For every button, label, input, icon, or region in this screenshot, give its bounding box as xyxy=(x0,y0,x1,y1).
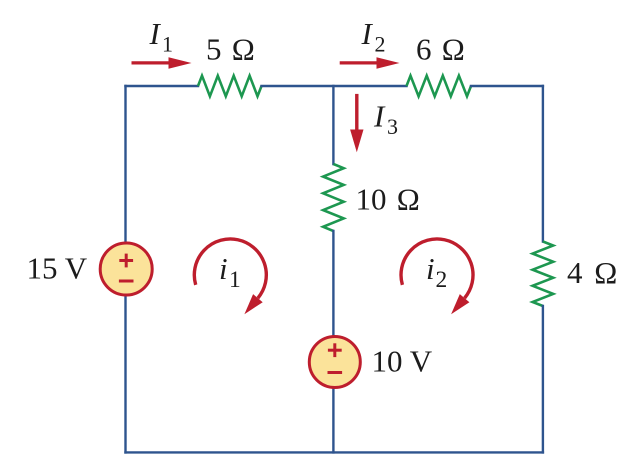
wire: bottom horizontal xyxy=(126,451,543,453)
resistor 6ohm zigzag xyxy=(407,76,472,97)
current arrow I3 (downward) xyxy=(350,94,363,152)
label i1 mesh current xyxy=(219,251,241,293)
resistor 10ohm zigzag xyxy=(323,164,344,231)
svg-text:i: i xyxy=(426,251,435,286)
svg-text:1: 1 xyxy=(162,32,173,57)
wire: top-middle horizontal segment xyxy=(262,85,407,87)
voltage source 10V circle xyxy=(309,337,360,388)
svg-text:5 Ω: 5 Ω xyxy=(206,31,255,66)
resistor 4ohm zigzag xyxy=(533,242,554,307)
label I1 xyxy=(149,16,174,57)
svg-text:6 Ω: 6 Ω xyxy=(416,31,465,66)
svg-text:2: 2 xyxy=(375,32,386,57)
svg-text:I: I xyxy=(361,16,374,51)
wire: middle vertical upper segment xyxy=(332,86,334,164)
label 5 ohm xyxy=(206,31,255,66)
current arrow I1 xyxy=(132,57,192,69)
wire: right vertical upper segment xyxy=(542,86,544,242)
label 10 ohm xyxy=(356,182,420,217)
wire: right vertical lower segment xyxy=(542,306,544,452)
svg-text:4 Ω: 4 Ω xyxy=(567,255,617,290)
svg-text:15 V: 15 V xyxy=(27,251,88,286)
label 6 ohm xyxy=(416,31,465,66)
svg-text:2: 2 xyxy=(436,267,448,293)
label 4 ohm xyxy=(567,255,617,290)
label I2 xyxy=(361,16,386,57)
resistor 5ohm zigzag xyxy=(198,76,262,97)
label 10 V xyxy=(372,344,433,379)
label i2 mesh current xyxy=(426,251,447,293)
label I3 xyxy=(373,99,398,140)
mesh current arc i1 xyxy=(194,239,266,314)
svg-text:i: i xyxy=(219,251,228,286)
svg-text:I: I xyxy=(373,99,386,134)
mesh current arc i2 xyxy=(401,239,473,314)
wire: top-right horizontal segment xyxy=(471,85,543,87)
label 15 V xyxy=(27,251,88,286)
wire: top-left horizontal segment xyxy=(126,85,199,87)
wire: middle vertical lower segment xyxy=(332,231,334,452)
svg-text:3: 3 xyxy=(387,114,398,139)
current arrow I2 xyxy=(340,57,400,69)
svg-text:10 Ω: 10 Ω xyxy=(356,182,420,217)
svg-text:10 V: 10 V xyxy=(372,344,433,379)
svg-text:I: I xyxy=(149,16,162,51)
voltage source 15V circle xyxy=(100,243,152,295)
svg-text:1: 1 xyxy=(229,267,241,293)
wire: left vertical branch xyxy=(124,86,126,452)
